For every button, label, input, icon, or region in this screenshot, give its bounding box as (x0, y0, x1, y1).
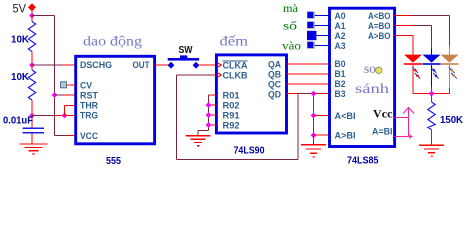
svg-text:VCC: VCC (80, 131, 98, 141)
node RST junction (52, 92, 58, 98)
svg-text:QB: QB (268, 70, 281, 80)
wire QD to B3 (287, 93, 299, 95)
clock arrow CLKB (217, 73, 221, 78)
svg-text:B3: B3 (335, 89, 346, 99)
input switch square A2 (selected) (307, 31, 316, 40)
svg-text:QC: QC (268, 80, 281, 90)
clock arrow CLKA (217, 63, 221, 68)
svg-text:A=BO: A=BO (368, 21, 391, 31)
resistor R2 10K (28, 65, 35, 116)
capacitor C1 0.01uF (23, 116, 45, 144)
wire A&lt;BO to LED3 (395, 15, 412, 17)
wire rail to ground (198, 130, 209, 132)
input switch square A3 (307, 42, 315, 49)
counter 74LS90 box (216, 55, 286, 133)
ground (150K) (419, 145, 444, 156)
node TRG junction (62, 113, 68, 119)
svg-text:DSCHG: DSCHG (80, 60, 112, 70)
svg-text:vào: vào (282, 40, 301, 52)
wire A=BO to LED2 (395, 25, 414, 27)
wire switch to CLKA (199, 64, 217, 66)
wire input A1 (313, 25, 330, 27)
5V power symbol (28, 3, 36, 15)
wire junction up to THR pin (64, 106, 66, 116)
wire reset rail vertical (208, 95, 210, 131)
wire R pins to reset rail (209, 95, 217, 125)
wire junction to TRG pin (65, 115, 76, 117)
wire QB to B1 (287, 73, 330, 75)
node capacitor top (29, 113, 35, 119)
svg-text:số: số (283, 20, 297, 33)
wire input A2 (313, 35, 330, 37)
svg-text:QD: QD (268, 90, 281, 100)
power arrow (Vcc) (395, 108, 415, 139)
svg-text:R02: R02 (223, 101, 240, 111)
wire cap node to TRG junction (32, 115, 57, 117)
wire QC to B2 (287, 83, 330, 85)
wire node to DSCHG (32, 64, 62, 66)
CV unconnected square (61, 82, 76, 88)
svg-text:dao động: dao động (83, 35, 142, 50)
node B3 junction (311, 91, 317, 97)
svg-text:R01: R01 (223, 91, 240, 101)
svg-text:0.01uF: 0.01uF (3, 114, 34, 126)
svg-text:đếm: đếm (220, 35, 249, 50)
svg-text:5V: 5V (13, 4, 27, 16)
svg-text:A>BO: A>BO (368, 31, 391, 41)
svg-text:B0: B0 (335, 59, 346, 69)
svg-text:CV: CV (80, 81, 93, 91)
node R91 (206, 112, 212, 118)
svg-text:TRG: TRG (80, 111, 98, 121)
wire OUT to switch (155, 64, 169, 66)
wire to A&gt;BI pin (314, 134, 330, 136)
LED D3 (orange, lit) (441, 46, 459, 94)
op 555 U1 box (76, 56, 155, 144)
node A&gt;BI junction (311, 132, 317, 138)
LED D1 (red, lit) (404, 55, 422, 94)
svg-text:B1: B1 (335, 69, 346, 79)
svg-text:R92: R92 (223, 121, 240, 131)
svg-text:Vcc: Vcc (373, 107, 393, 121)
wire vcc rail to VCC pin (55, 135, 76, 137)
node top (junction 5V) (29, 13, 35, 19)
resistor R3 150K (428, 94, 435, 146)
svg-text:CLKB: CLKB (223, 71, 248, 81)
svg-text:74LS90: 74LS90 (234, 145, 265, 157)
node R02 (206, 102, 212, 108)
svg-text:A0: A0 (335, 11, 346, 21)
wire 5V node to vcc rail (32, 15, 55, 17)
svg-text:THR: THR (80, 101, 98, 111)
wire A&gt;BO to LED1 (395, 35, 414, 37)
svg-text:A<BI: A<BI (335, 111, 356, 121)
svg-text:R91: R91 (223, 111, 240, 121)
svg-text:OUT: OUT (133, 60, 150, 70)
svg-text:sánh: sánh (355, 82, 389, 97)
svg-text:A=BI: A=BI (372, 127, 393, 137)
node A&lt;BI junction (311, 113, 317, 119)
comparator 74LS85 box (330, 8, 395, 146)
svg-text:CLKA: CLKA (223, 61, 248, 71)
wire QD feedback to CLKB (177, 75, 299, 160)
ground (cascade inputs) (301, 145, 326, 157)
svg-text:A2: A2 (335, 31, 346, 41)
svg-text:A<BO: A<BO (368, 11, 391, 21)
ground (74LS90 resets) (186, 136, 211, 146)
svg-text:74LS85: 74LS85 (347, 155, 379, 167)
wire to RST pin (55, 94, 65, 96)
svg-text:150K: 150K (440, 114, 463, 126)
node between resistors (29, 62, 35, 68)
input switch square A1 (307, 22, 315, 29)
input switch square A0 (307, 12, 315, 19)
ground (capacitor) (20, 144, 48, 154)
svg-text:10K: 10K (11, 34, 29, 46)
wire input A3 (313, 45, 330, 47)
wire QA to B0 (287, 63, 330, 65)
node LED bus (429, 91, 435, 97)
wire vcc rail vertical (54, 16, 56, 136)
svg-text:555: 555 (106, 155, 121, 167)
resistor R1 10K (28, 16, 35, 66)
wire node to ground (313, 135, 315, 145)
wire LED cathode bus (413, 93, 450, 95)
svg-text:B2: B2 (335, 79, 346, 89)
node R92 (206, 122, 212, 128)
wire input A0 (313, 15, 330, 17)
wire to A&lt;BI pin (314, 115, 330, 117)
wire down to A&gt;BI (313, 116, 315, 136)
svg-text:QA: QA (268, 60, 281, 70)
svg-text:so: so (364, 62, 376, 77)
svg-text:RST: RST (80, 91, 98, 101)
svg-text:10K: 10K (11, 71, 29, 83)
LED D2 (blue) (423, 55, 441, 94)
svg-text:A3: A3 (335, 41, 346, 51)
wire B3 node down to A&lt;BI (313, 94, 315, 116)
svg-text:mà: mà (283, 3, 298, 15)
svg-text:A>BI: A>BI (335, 131, 356, 141)
svg-text:A1: A1 (335, 21, 346, 31)
svg-text:SW: SW (179, 45, 193, 56)
marker yellow dot (376, 67, 382, 73)
switch SW (168, 55, 200, 68)
